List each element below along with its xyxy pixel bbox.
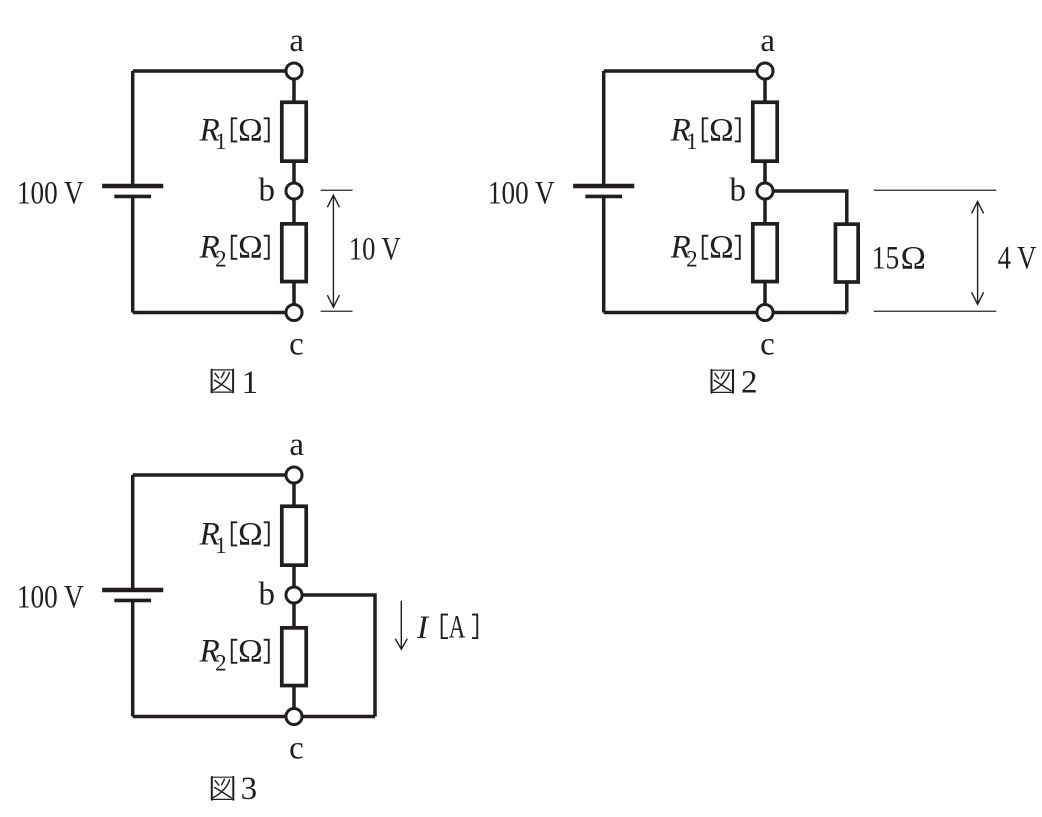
svg-text:a: a bbox=[289, 427, 304, 463]
svg-text:4 V: 4 V bbox=[998, 241, 1037, 277]
svg-text:10 V: 10 V bbox=[349, 231, 401, 267]
svg-text:c: c bbox=[289, 326, 304, 362]
svg-text:A: A bbox=[449, 609, 466, 645]
svg-text:I: I bbox=[416, 610, 430, 646]
svg-text:b: b bbox=[730, 172, 747, 208]
svg-text:15: 15 bbox=[872, 241, 900, 277]
svg-text:2: 2 bbox=[741, 365, 758, 401]
svg-text:b: b bbox=[259, 172, 276, 208]
svg-text:Ω: Ω bbox=[238, 634, 263, 670]
svg-text:c: c bbox=[289, 730, 304, 766]
svg-text:100 V: 100 V bbox=[17, 579, 84, 615]
svg-text:Ω: Ω bbox=[901, 241, 926, 277]
svg-text:100 V: 100 V bbox=[17, 175, 84, 211]
svg-text:1: 1 bbox=[686, 129, 698, 154]
svg-text:Ω: Ω bbox=[238, 230, 263, 266]
svg-text:a: a bbox=[760, 23, 775, 59]
svg-text:Ω: Ω bbox=[238, 112, 263, 148]
svg-text:Ω: Ω bbox=[709, 112, 734, 148]
svg-text:3: 3 bbox=[241, 771, 258, 807]
svg-text:Ω: Ω bbox=[238, 516, 263, 552]
svg-text:2: 2 bbox=[215, 650, 227, 675]
svg-text:c: c bbox=[760, 326, 775, 362]
svg-text:1: 1 bbox=[215, 533, 227, 558]
svg-text:Ω: Ω bbox=[709, 230, 734, 266]
svg-text:100 V: 100 V bbox=[488, 175, 555, 211]
svg-text:b: b bbox=[259, 576, 276, 612]
svg-text:1: 1 bbox=[242, 365, 259, 401]
svg-text:a: a bbox=[289, 23, 304, 59]
svg-text:1: 1 bbox=[215, 129, 227, 154]
svg-text:2: 2 bbox=[215, 246, 227, 271]
svg-text:2: 2 bbox=[686, 246, 698, 271]
